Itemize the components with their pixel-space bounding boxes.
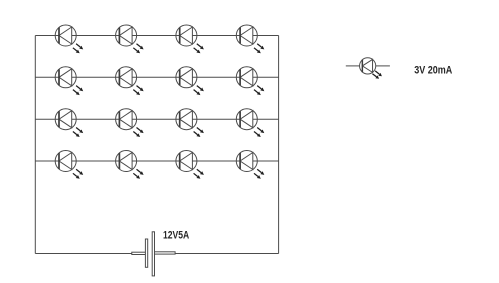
battery BT1 positive lead (155, 252, 176, 254)
LED D2 (row 1, col 2) (116, 25, 144, 53)
LED D12 (row 3, col 4) (236, 109, 264, 137)
wire: left vertical bus (34, 36, 36, 254)
battery BT1 negative plate (short bar) (145, 239, 147, 267)
wire: row 1 horizontal (35, 35, 278, 37)
LED D1 (row 1, col 1) (55, 25, 83, 53)
wire: row 2 horizontal (35, 76, 278, 78)
wire: spec LED left lead (346, 65, 360, 67)
LED D10 (row 3, col 2) (116, 109, 144, 137)
wire: row 3 horizontal (35, 118, 278, 120)
wire: row 4 horizontal (35, 160, 278, 162)
LED D5 (row 2, col 1) (55, 67, 83, 95)
LED D14 (row 4, col 2) (116, 151, 144, 179)
LED D17 (spec symbol) (360, 58, 382, 79)
wire: spec LED right lead (376, 65, 390, 67)
battery BT1 positive plate (tall bar) (152, 232, 154, 276)
LED D9 (row 3, col 1) (55, 109, 83, 137)
LED D8 (row 2, col 4) (236, 67, 264, 95)
LED D6 (row 2, col 2) (116, 67, 144, 95)
svg-text:3V 20mA: 3V 20mA (414, 65, 452, 77)
svg-text:12V5A: 12V5A (163, 229, 189, 241)
LED D3 (row 1, col 3) (176, 25, 204, 53)
wire: bottom right segment from battery (175, 253, 279, 255)
wire: bottom left segment to battery (35, 253, 132, 255)
LED D4 (row 1, col 4) (236, 25, 264, 53)
LED D15 (row 4, col 3) (176, 151, 204, 179)
LED D7 (row 2, col 3) (176, 67, 204, 95)
wire: right vertical bus (278, 36, 280, 254)
LED D16 (row 4, col 4) (236, 151, 264, 179)
battery BT1 negative lead (132, 252, 146, 254)
LED D11 (row 3, col 3) (176, 109, 204, 137)
LED D13 (row 4, col 1) (55, 151, 83, 179)
